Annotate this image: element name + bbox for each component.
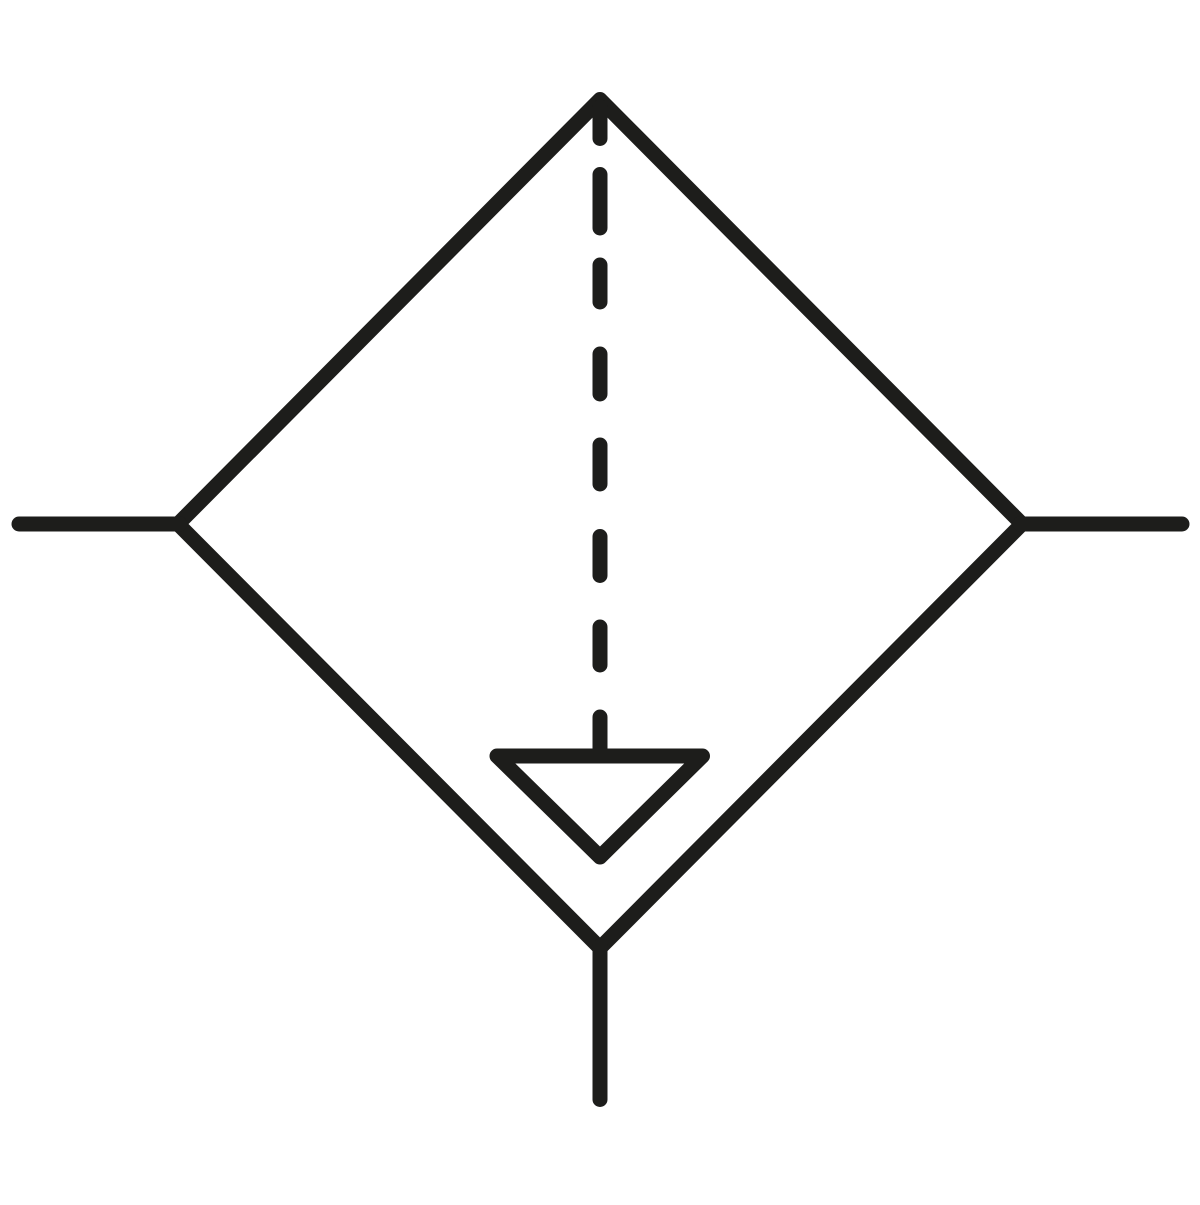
dashed condensate line <box>593 107 608 756</box>
filter F1 body (diamond) <box>178 100 1022 949</box>
drain wire (bottom) <box>593 946 608 1100</box>
inlet wire (left port) <box>19 517 180 532</box>
water separator triangle <box>497 756 703 857</box>
outlet wire (right port) <box>1020 517 1182 532</box>
